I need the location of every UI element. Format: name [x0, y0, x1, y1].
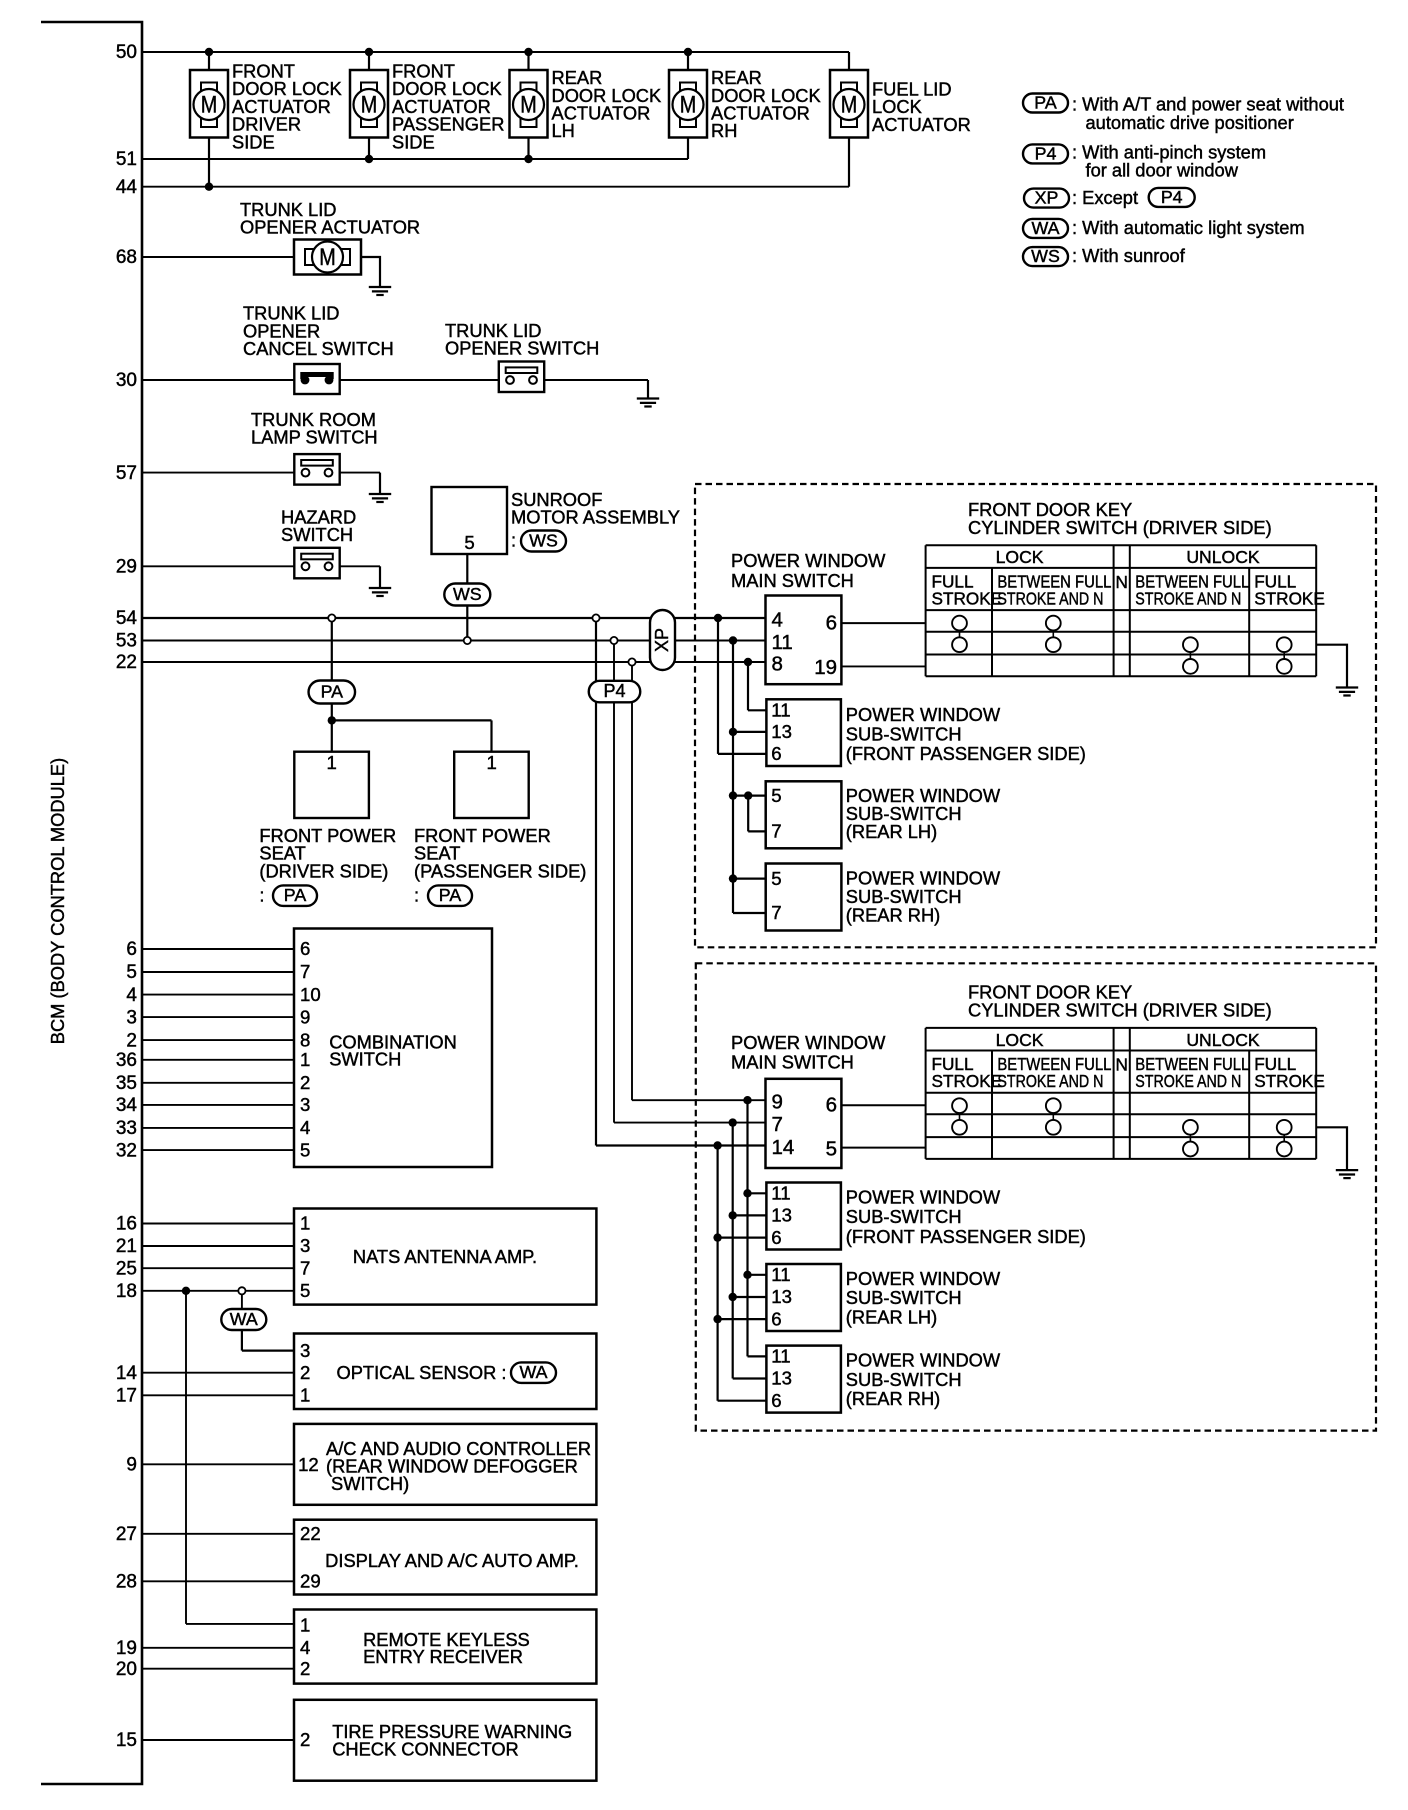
svg-text:25: 25	[116, 1258, 137, 1279]
node P4 branch row 22	[628, 658, 635, 1100]
power window main switch label (box 2)	[731, 1032, 886, 1073]
svg-text:3: 3	[300, 1094, 310, 1115]
svg-text:WS: WS	[1031, 246, 1060, 266]
svg-text:2: 2	[300, 1729, 310, 1750]
svg-text:57: 57	[116, 463, 137, 484]
svg-text:19: 19	[116, 1638, 137, 1659]
svg-text:1: 1	[487, 752, 497, 773]
svg-text:6: 6	[771, 1227, 781, 1248]
svg-text:(REAR RH): (REAR RH)	[846, 905, 940, 926]
node rear LH pin7 branch	[744, 791, 766, 831]
node sunroof connection on row 53	[464, 637, 471, 644]
motor fuel lid lock actuator	[830, 70, 971, 187]
power window sub-switch front passenger (box1)	[766, 699, 841, 766]
wire BCM pin 15 to tire pressure connector	[142, 1739, 294, 1741]
power window sub-switch rear RH (box2)	[766, 1346, 841, 1413]
svg-text:2: 2	[300, 1658, 310, 1679]
svg-text::: :	[414, 885, 419, 906]
svg-text:10: 10	[300, 984, 321, 1005]
power window sub-switch rear LH (box1)	[766, 781, 842, 848]
svg-text:33: 33	[116, 1118, 137, 1139]
svg-text:for all door window: for all door window	[1086, 159, 1239, 180]
remote keyless entry receiver box	[294, 1610, 596, 1684]
svg-text:RH: RH	[711, 120, 737, 141]
label sub-switch rear RH (box2)	[846, 1350, 1001, 1410]
svg-text:M: M	[319, 244, 336, 271]
ground	[1336, 1169, 1358, 1171]
front power seat passenger side label	[414, 825, 586, 906]
wires BCM to optical sensor	[142, 1373, 294, 1396]
power window main switch U2 box	[766, 1079, 842, 1168]
svg-text:MAIN SWITCH: MAIN SWITCH	[731, 570, 854, 591]
svg-text:9: 9	[126, 1455, 137, 1476]
svg-text:SWITCH: SWITCH	[329, 1049, 401, 1070]
front door key cylinder switch title (box 1)	[968, 499, 1272, 538]
svg-text:34: 34	[116, 1095, 138, 1116]
svg-text:7: 7	[300, 961, 310, 982]
svg-text:M: M	[520, 92, 537, 119]
svg-text:PA: PA	[321, 682, 344, 702]
front power seat passenger side box	[454, 752, 529, 818]
svg-text:POWER WINDOW: POWER WINDOW	[731, 1032, 886, 1053]
svg-text:5: 5	[464, 532, 474, 553]
svg-text:2: 2	[300, 1072, 310, 1093]
svg-text:SWITCH): SWITCH)	[331, 1473, 409, 1494]
svg-text:WA: WA	[230, 1309, 258, 1329]
svg-text:: With sunroof: : With sunroof	[1072, 245, 1186, 266]
svg-text:53: 53	[116, 631, 137, 652]
sunroof motor assembly box	[432, 487, 680, 554]
svg-text:P4: P4	[1035, 143, 1057, 163]
legend WA	[1023, 217, 1305, 238]
wire row 53 (BCM pin 53)	[142, 640, 766, 642]
svg-text:: Except: : Except	[1072, 187, 1138, 208]
power window sub-switch front passenger (box2)	[766, 1183, 841, 1250]
svg-text:4: 4	[300, 1637, 310, 1658]
wire P4 row53 to main switch 2 pin 7	[614, 1122, 766, 1124]
node dot row 54 to sub vertical	[714, 614, 767, 754]
svg-text:11: 11	[771, 1346, 790, 1367]
svg-text:ACTUATOR: ACTUATOR	[872, 114, 971, 135]
wire key cylinder 1 to ground	[1316, 645, 1347, 688]
dashed box XP power window circuit	[695, 484, 1376, 947]
svg-text:9: 9	[300, 1006, 310, 1027]
switch trunk lid opener cancel switch (closed)	[294, 364, 339, 394]
svg-text:UNLOCK: UNLOCK	[1186, 1030, 1260, 1050]
combination switch box	[294, 929, 492, 1168]
node P4 branch row 54	[592, 614, 599, 1145]
node dot row 22 to sub vertical	[744, 658, 767, 711]
svg-text:M: M	[680, 92, 697, 119]
label sub-switch front passenger (box2)	[846, 1187, 1086, 1248]
svg-text:6: 6	[826, 612, 837, 635]
svg-text:UNLOCK: UNLOCK	[1186, 547, 1260, 567]
svg-text:PA: PA	[1034, 93, 1057, 113]
svg-text:M: M	[201, 92, 218, 119]
wire main switch 2 pin 5 to key cylinder table	[841, 1147, 925, 1149]
svg-text:29: 29	[116, 557, 137, 578]
svg-text:44: 44	[116, 177, 138, 198]
ground	[637, 397, 659, 399]
svg-text:13: 13	[771, 1205, 792, 1226]
svg-text:STROKE AND N: STROKE AND N	[997, 1071, 1103, 1091]
legend XP	[1024, 187, 1195, 208]
ground	[369, 587, 391, 589]
node WA branch on row 18	[238, 1287, 245, 1309]
node dot row 53 to sub vertical	[729, 636, 767, 913]
svg-text:29: 29	[300, 1571, 321, 1592]
svg-text:POWER WINDOW: POWER WINDOW	[846, 704, 1001, 725]
wire main switch 2 pin 6 to key cylinder table	[841, 1104, 925, 1106]
wire P4 row54 to main switch 2 pin 14	[596, 1144, 766, 1146]
svg-text:WS: WS	[453, 584, 482, 604]
svg-text:LOCK: LOCK	[996, 547, 1044, 567]
svg-text:XP: XP	[1035, 188, 1059, 208]
svg-text:51: 51	[116, 149, 137, 170]
svg-text:7: 7	[771, 902, 781, 923]
svg-text:OPENER SWITCH: OPENER SWITCH	[445, 338, 599, 359]
wire row 29	[142, 566, 380, 588]
label sub-switch rear LH (box2)	[846, 1268, 1001, 1328]
dashed box P4 power window circuit	[696, 963, 1376, 1430]
wire row 44 (BCM pin 44 bus)	[142, 183, 849, 191]
svg-text:11: 11	[771, 1264, 790, 1285]
svg-text::: :	[259, 885, 264, 906]
svg-text:M: M	[841, 92, 858, 119]
svg-text:5: 5	[126, 962, 137, 983]
svg-text:(FRONT PASSENGER SIDE): (FRONT PASSENGER SIDE)	[846, 743, 1086, 764]
svg-text:13: 13	[771, 721, 792, 742]
oval P4	[589, 681, 641, 703]
oval WA	[221, 1309, 266, 1330]
svg-text:LAMP SWITCH: LAMP SWITCH	[251, 427, 378, 448]
svg-text:P4: P4	[1161, 187, 1183, 207]
wire main switch 1 pin 19 to key cylinder table	[841, 665, 925, 667]
svg-text:4: 4	[772, 609, 783, 632]
optical sensor box	[294, 1334, 596, 1410]
front door key cylinder switch table (box 1)	[926, 545, 1325, 676]
svg-text:SWITCH: SWITCH	[281, 524, 353, 545]
svg-text:17: 17	[116, 1386, 137, 1407]
svg-text:STROKE AND N: STROKE AND N	[997, 589, 1103, 609]
svg-text:28: 28	[116, 1572, 137, 1593]
label sub-switch rear RH (box1)	[846, 868, 1001, 926]
wire sunroof to row 53	[466, 554, 468, 641]
node dot pin7 wire to sub vertical	[729, 1118, 767, 1378]
svg-text:P4: P4	[603, 681, 625, 701]
display and A/C auto amp box	[294, 1520, 596, 1595]
svg-text:MOTOR ASSEMBLY: MOTOR ASSEMBLY	[511, 507, 680, 528]
svg-text:14: 14	[772, 1136, 795, 1159]
svg-text:9: 9	[772, 1091, 783, 1114]
legend WS	[1023, 245, 1186, 266]
svg-text:3: 3	[300, 1340, 310, 1361]
svg-text:1: 1	[300, 1385, 310, 1406]
svg-text:CHECK CONNECTOR: CHECK CONNECTOR	[332, 1739, 519, 1760]
svg-text:PA: PA	[439, 885, 462, 905]
power window sub-switch rear LH (box2)	[766, 1264, 841, 1331]
svg-text:8: 8	[300, 1029, 310, 1050]
trunk lid opener switch label	[445, 320, 599, 359]
ground	[369, 493, 391, 495]
svg-text:4: 4	[300, 1117, 310, 1138]
svg-text::: :	[511, 530, 516, 551]
svg-text:SUB-SWITCH: SUB-SWITCH	[846, 1287, 962, 1308]
svg-text:6: 6	[771, 1308, 781, 1329]
ground	[369, 286, 391, 288]
power window main switch label (box 1)	[731, 550, 886, 591]
svg-text:NATS ANTENNA AMP.: NATS ANTENNA AMP.	[353, 1246, 537, 1267]
svg-text:LH: LH	[552, 120, 575, 141]
front power seat driver side label	[259, 825, 396, 906]
svg-text:36: 36	[116, 1050, 137, 1071]
wire row 51 (BCM pin 51 bus)	[142, 155, 688, 163]
node P4 branch row 53	[610, 637, 617, 1123]
svg-text:SIDE: SIDE	[392, 131, 435, 152]
power window sub-switch rear RH (box1)	[766, 864, 842, 931]
svg-text:14: 14	[116, 1363, 138, 1384]
svg-text:5: 5	[771, 868, 781, 889]
front power seat driver side box	[294, 752, 369, 818]
svg-text:WS: WS	[529, 531, 558, 551]
svg-text:6: 6	[826, 1094, 837, 1117]
trunk lid opener actuator label	[240, 199, 420, 238]
oval XP	[650, 610, 675, 670]
svg-text:2: 2	[126, 1030, 137, 1051]
legend P4	[1023, 142, 1266, 181]
wires BCM to combination switch	[142, 949, 294, 1150]
svg-text:automatic drive positioner: automatic drive positioner	[1086, 112, 1294, 133]
node PA branch on row 54	[328, 614, 335, 682]
BCM (Body Control Module) bracket	[41, 22, 142, 1784]
svg-text:BCM (BODY CONTROL MODULE): BCM (BODY CONTROL MODULE)	[47, 758, 68, 1044]
wire key cylinder 2 to ground	[1316, 1127, 1347, 1170]
svg-text:(REAR LH): (REAR LH)	[846, 821, 937, 842]
svg-text:6: 6	[771, 1390, 781, 1411]
svg-text:N: N	[1115, 572, 1127, 592]
svg-text:(REAR LH): (REAR LH)	[846, 1307, 937, 1328]
svg-text:20: 20	[116, 1659, 137, 1680]
svg-text:30: 30	[116, 370, 137, 391]
wire P4 row22 to main switch 2 pin 9	[632, 1099, 766, 1101]
wires BCM to NATS antenna amp	[142, 1224, 294, 1291]
svg-text:XP: XP	[652, 628, 672, 652]
svg-text:SUB-SWITCH: SUB-SWITCH	[846, 724, 962, 745]
svg-text:22: 22	[116, 652, 137, 673]
wire actuator to ground	[361, 257, 380, 287]
svg-text:5: 5	[300, 1280, 310, 1301]
oval PA	[309, 681, 356, 704]
svg-text:12: 12	[298, 1454, 319, 1475]
label sub-switch front passenger (box1)	[846, 704, 1086, 764]
svg-text:6: 6	[126, 939, 137, 960]
svg-text:POWER WINDOW: POWER WINDOW	[846, 1268, 1001, 1289]
svg-text:7: 7	[772, 1113, 783, 1136]
svg-text:DISPLAY AND A/C AUTO AMP.: DISPLAY AND A/C AUTO AMP.	[325, 1550, 579, 1571]
svg-text:POWER WINDOW: POWER WINDOW	[731, 550, 886, 571]
svg-text:1: 1	[327, 752, 337, 773]
legend PA	[1023, 93, 1344, 134]
svg-text:13: 13	[771, 1368, 792, 1389]
svg-text:18: 18	[116, 1281, 137, 1302]
oval WS on sunroof wire	[444, 584, 490, 606]
svg-text:6: 6	[300, 938, 310, 959]
svg-text:(REAR RH): (REAR RH)	[846, 1388, 940, 1409]
wires BCM to remote keyless entry receiver	[142, 1648, 294, 1669]
svg-text:5: 5	[771, 785, 781, 806]
ground	[1336, 686, 1358, 688]
wire main switch 1 pin 6 to key cylinder table	[841, 622, 925, 624]
motor front door lock actuator passenger side	[350, 52, 504, 159]
svg-text:1: 1	[300, 1614, 310, 1635]
svg-text:11: 11	[771, 700, 790, 721]
switch trunk lid opener switch	[499, 362, 544, 393]
wire row 57	[142, 473, 380, 494]
svg-text:11: 11	[771, 1183, 790, 1204]
label sub-switch rear LH (box1)	[846, 785, 1001, 842]
svg-text:3: 3	[126, 1007, 137, 1028]
svg-text:PA: PA	[284, 885, 307, 905]
wire PA to front power seats	[328, 703, 492, 752]
motor front door lock actuator driver side	[190, 52, 342, 187]
svg-text:2: 2	[300, 1362, 310, 1383]
svg-text:STROKE: STROKE	[1254, 1071, 1325, 1091]
svg-text:STROKE: STROKE	[1254, 589, 1325, 609]
svg-text:5: 5	[826, 1138, 837, 1161]
wire BCM pin 9 to A/C audio controller	[142, 1463, 294, 1465]
svg-text:54: 54	[116, 608, 138, 629]
front door key cylinder switch title (box 2)	[968, 982, 1272, 1021]
trunk room lamp switch label	[251, 409, 378, 448]
tire pressure warning check connector box	[294, 1700, 596, 1781]
svg-text:LOCK: LOCK	[996, 1030, 1044, 1050]
svg-text:ENTRY RECEIVER: ENTRY RECEIVER	[363, 1646, 523, 1667]
switch hazard switch	[294, 548, 339, 579]
svg-text:1: 1	[300, 1049, 310, 1070]
svg-text:35: 35	[116, 1073, 137, 1094]
wire row 30	[142, 380, 648, 399]
motor trunk lid opener actuator	[294, 240, 361, 275]
svg-text:(PASSENGER SIDE): (PASSENGER SIDE)	[414, 860, 586, 881]
svg-text:CYLINDER SWITCH (DRIVER SIDE): CYLINDER SWITCH (DRIVER SIDE)	[968, 517, 1272, 538]
svg-text:POWER WINDOW: POWER WINDOW	[846, 1187, 1001, 1208]
svg-text:1: 1	[300, 1213, 310, 1234]
svg-text:32: 32	[116, 1140, 137, 1161]
motor rear door lock actuator RH	[669, 52, 821, 159]
A/C and audio controller box	[294, 1424, 596, 1505]
svg-text:22: 22	[300, 1523, 321, 1544]
trunk lid opener cancel switch label	[243, 303, 394, 359]
svg-text:16: 16	[116, 1214, 137, 1235]
wires BCM to display and A/C auto amp	[142, 1534, 294, 1582]
BCM pin numbers	[116, 42, 138, 1751]
svg-text:21: 21	[116, 1236, 137, 1257]
svg-text:SUB-SWITCH: SUB-SWITCH	[846, 1206, 962, 1227]
svg-text:3: 3	[300, 1235, 310, 1256]
svg-text:SIDE: SIDE	[232, 131, 275, 152]
svg-text:STROKE: STROKE	[932, 1071, 1003, 1091]
node dot pin14 wire to sub vertical	[713, 1141, 766, 1400]
svg-text:SUB-SWITCH: SUB-SWITCH	[846, 1369, 962, 1390]
svg-text:CANCEL SWITCH: CANCEL SWITCH	[243, 338, 394, 359]
wire row 22 (BCM pin 22)	[142, 661, 766, 663]
svg-text:7: 7	[771, 821, 781, 842]
svg-text:OPENER ACTUATOR: OPENER ACTUATOR	[240, 217, 420, 238]
svg-text:7: 7	[300, 1257, 310, 1278]
NATS antenna amp box	[294, 1209, 596, 1305]
svg-text:8: 8	[772, 653, 783, 676]
front door key cylinder switch table (box 2)	[926, 1028, 1325, 1159]
svg-text:OPTICAL SENSOR :: OPTICAL SENSOR :	[337, 1362, 507, 1383]
svg-text:27: 27	[116, 1524, 137, 1545]
svg-text:STROKE: STROKE	[932, 589, 1003, 609]
svg-text:WA: WA	[520, 1362, 548, 1382]
svg-text:5: 5	[300, 1139, 310, 1160]
svg-text:MAIN SWITCH: MAIN SWITCH	[731, 1052, 854, 1073]
svg-text:15: 15	[116, 1730, 137, 1751]
svg-text:13: 13	[771, 1286, 792, 1307]
svg-text:4: 4	[126, 985, 137, 1006]
svg-text:19: 19	[814, 656, 837, 679]
switch trunk room lamp switch	[294, 454, 339, 485]
wire row 50 (BCM pin 50 bus)	[142, 48, 849, 70]
wire row 68	[142, 256, 294, 258]
svg-text:STROKE AND N: STROKE AND N	[1135, 589, 1241, 609]
node dot pin9 wire to sub vertical	[743, 1096, 766, 1356]
svg-text:N: N	[1115, 1055, 1127, 1075]
svg-text:(FRONT PASSENGER SIDE): (FRONT PASSENGER SIDE)	[846, 1226, 1086, 1247]
svg-text:11: 11	[772, 631, 793, 654]
svg-text:STROKE AND N: STROKE AND N	[1135, 1071, 1241, 1091]
power window main switch U1 box	[766, 596, 842, 685]
node dot on row 18 (keyless branch)	[182, 1287, 294, 1624]
svg-text:(DRIVER SIDE): (DRIVER SIDE)	[259, 860, 388, 881]
svg-text:WA: WA	[1032, 218, 1060, 238]
motor rear door lock actuator LH	[510, 52, 662, 159]
svg-text:: With automatic light system: : With automatic light system	[1072, 217, 1305, 238]
svg-text:CYLINDER SWITCH (DRIVER SIDE): CYLINDER SWITCH (DRIVER SIDE)	[968, 1000, 1272, 1021]
svg-text:6: 6	[771, 743, 781, 764]
hazard switch label	[281, 507, 356, 546]
wire row 54 (BCM pin 54)	[142, 617, 766, 619]
svg-text:68: 68	[116, 247, 137, 268]
svg-text:50: 50	[116, 42, 137, 63]
wire WA to optical sensor pin 3	[242, 1330, 294, 1351]
svg-text:M: M	[361, 92, 378, 119]
svg-text:POWER WINDOW: POWER WINDOW	[846, 1350, 1001, 1371]
